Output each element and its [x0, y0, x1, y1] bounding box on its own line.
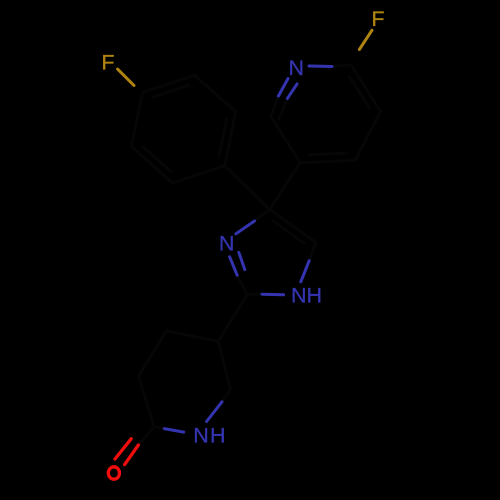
wire phenyl edge 0	[142, 75, 194, 92]
wire lac C6-N carbon half	[222, 389, 230, 402]
bond Npy-C2 (blue stub)	[309, 65, 332, 69]
bond Npy=C6 inner (blue stub)	[287, 84, 297, 98]
bond C-F1 (orange stub)	[118, 69, 134, 85]
wire py C2-C3	[351, 65, 381, 111]
bond C2-NHim (blue stub)	[262, 293, 284, 297]
bond Nim=C2 inner (blue stub)	[239, 252, 245, 269]
bond Nim=C2 main (blue stub)	[230, 257, 238, 275]
wire lac C2=O carbon stub	[138, 427, 154, 445]
wire phenyl-imidazole link	[225, 166, 270, 210]
wire phenyl edge 3	[173, 166, 225, 183]
wire py C4-C5	[300, 160, 355, 162]
atom O label (drawn as thick ring)	[108, 467, 119, 479]
py inner double C4=C5	[309, 153, 346, 155]
wire im C4-C5	[270, 209, 316, 242]
svg-text:F: F	[371, 7, 384, 31]
bond Nim-C5 (blue stub)	[236, 221, 255, 234]
bond Npy=C6 main (blue stub)	[278, 79, 288, 96]
wire im N3-C4 carbon half	[309, 242, 316, 260]
wire phenyl edge 1	[195, 75, 236, 112]
wire lac N-C2 carbon half	[154, 427, 164, 429]
wire phenyl edge 4	[131, 147, 172, 184]
bond C-F2 (orange stub)	[359, 30, 372, 49]
svg-text:NH: NH	[291, 283, 322, 307]
wire phenyl edge 5	[131, 93, 142, 147]
wire pyridine-imidazole link	[270, 163, 301, 210]
im inner double C4=C5	[273, 221, 305, 244]
wire py C3-C4	[355, 112, 380, 161]
wire py C5-C6	[271, 116, 301, 162]
wire lac C3-C4	[139, 331, 167, 376]
phenyl inner double 3	[143, 147, 171, 172]
wire im N1=C2 carbon half	[237, 275, 247, 294]
wire im N1-C5 carbon half	[255, 209, 270, 221]
wire lac C5-C6	[218, 341, 230, 389]
svg-text:NH: NH	[193, 424, 226, 448]
wire py N=C6 carbon half	[271, 96, 279, 116]
bond NHlac-C2 (blue stub)	[164, 429, 183, 433]
svg-text:N: N	[289, 56, 305, 80]
wire imidazole-lactam link	[218, 295, 247, 342]
py N=C6 inner carbon half	[279, 98, 288, 119]
wire py N-C2 carbon half	[332, 65, 351, 66]
wire lac C2-C3	[139, 376, 155, 427]
py inner double C2=C3	[350, 77, 370, 108]
phenyl inner double 1	[153, 85, 188, 97]
wire lac C4-C5	[166, 331, 218, 341]
bond C=O main (red stub)	[125, 445, 139, 465]
bond NHlac-C6 (blue stub)	[207, 402, 222, 422]
svg-text:F: F	[101, 51, 114, 75]
phenyl inner double 2	[219, 119, 226, 155]
svg-text:N: N	[219, 232, 235, 256]
wire im C2-N3 carbon half	[247, 293, 262, 296]
wire phenyl edge 2	[225, 112, 236, 166]
bond NHim-C4 (blue stub)	[301, 261, 309, 282]
bond C=O inner (red stub)	[115, 439, 131, 459]
